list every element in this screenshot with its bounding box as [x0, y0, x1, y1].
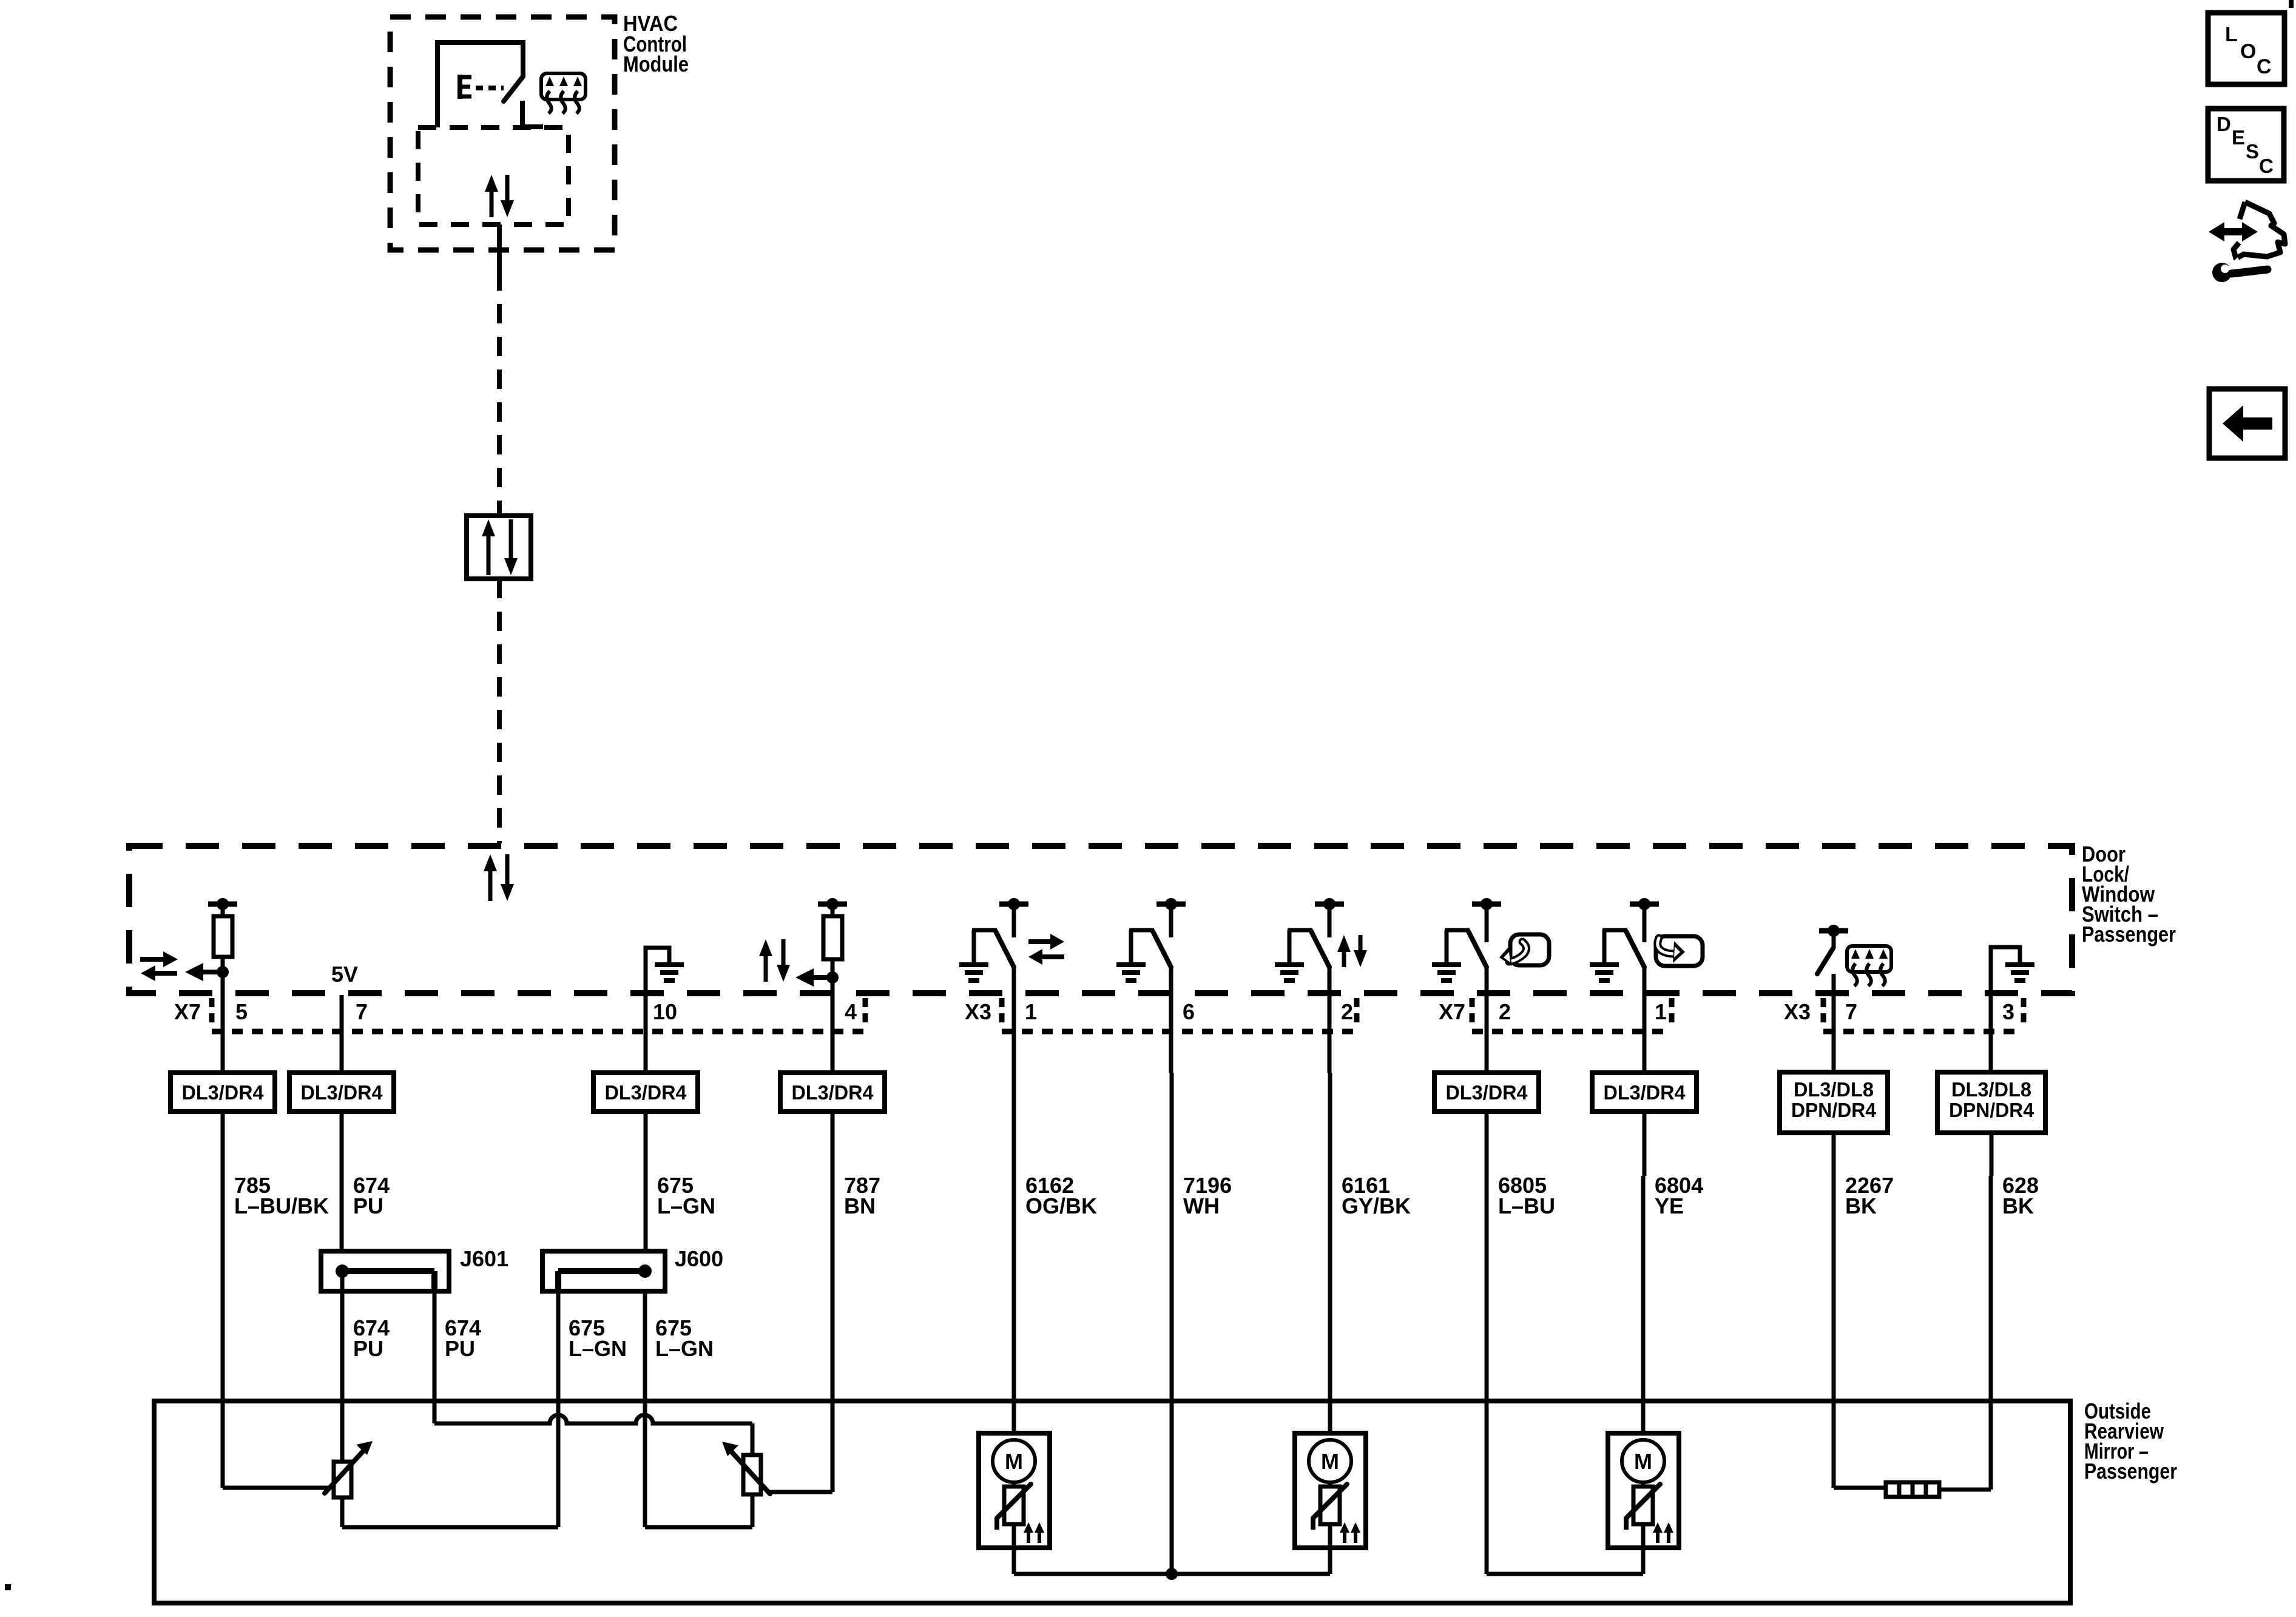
svg-text:D: D	[2217, 113, 2231, 135]
svg-text:E: E	[2232, 126, 2245, 149]
svg-text:J601: J601	[460, 1246, 508, 1271]
svg-text:DL3/DL8: DL3/DL8	[1951, 1078, 2031, 1101]
svg-text:L–BU/BK: L–BU/BK	[234, 1193, 329, 1218]
svg-text:DL3/DR4: DL3/DR4	[792, 1081, 874, 1104]
svg-text:C: C	[2257, 55, 2272, 78]
svg-text:1: 1	[1655, 999, 1667, 1024]
svg-text:OG/BK: OG/BK	[1025, 1193, 1097, 1218]
svg-text:6: 6	[1183, 999, 1195, 1024]
svg-text:3: 3	[2002, 999, 2014, 1024]
svg-text:L–GN: L–GN	[655, 1336, 714, 1361]
svg-text:M: M	[1634, 1449, 1652, 1474]
svg-text:Module: Module	[623, 52, 689, 76]
svg-text:2: 2	[1499, 999, 1511, 1024]
svg-text:DL3/DR4: DL3/DR4	[301, 1081, 383, 1104]
svg-text:S: S	[2246, 140, 2259, 163]
svg-text:1: 1	[1025, 999, 1037, 1024]
svg-text:X7: X7	[174, 999, 201, 1024]
svg-text:J600: J600	[675, 1246, 723, 1271]
svg-text:X3: X3	[1784, 999, 1811, 1024]
svg-text:PU: PU	[353, 1193, 383, 1218]
svg-text:O: O	[2240, 40, 2256, 63]
svg-text:BN: BN	[844, 1193, 876, 1218]
svg-text:L–GN: L–GN	[657, 1193, 715, 1218]
svg-text:DL3/DR4: DL3/DR4	[182, 1081, 265, 1104]
svg-text:5V: 5V	[331, 962, 358, 987]
svg-text:DL3/DR4: DL3/DR4	[605, 1081, 687, 1104]
svg-text:DL3/DR4: DL3/DR4	[1604, 1081, 1686, 1104]
svg-text:BK: BK	[1845, 1193, 1877, 1218]
svg-text:X3: X3	[965, 999, 991, 1024]
svg-text:DPN/DR4: DPN/DR4	[1949, 1099, 2034, 1121]
svg-text:7: 7	[1845, 999, 1857, 1024]
svg-text:Passenger: Passenger	[2082, 922, 2176, 947]
svg-text:YE: YE	[1655, 1193, 1684, 1218]
svg-text:2: 2	[1341, 999, 1353, 1024]
svg-text:4: 4	[845, 999, 857, 1024]
svg-text:C: C	[2259, 155, 2274, 177]
svg-text:10: 10	[653, 999, 677, 1024]
svg-text:L–GN: L–GN	[569, 1336, 627, 1361]
svg-text:PU: PU	[445, 1336, 475, 1361]
svg-text:Passenger: Passenger	[2084, 1459, 2177, 1484]
svg-text:WH: WH	[1183, 1193, 1220, 1218]
svg-text:7: 7	[356, 999, 368, 1024]
svg-text:DL3/DR4: DL3/DR4	[1446, 1081, 1528, 1104]
svg-text:X7: X7	[1439, 999, 1465, 1024]
svg-text:GY/BK: GY/BK	[1342, 1193, 1411, 1218]
svg-text:DL3/DL8: DL3/DL8	[1794, 1078, 1874, 1101]
svg-text:M: M	[1005, 1449, 1023, 1474]
svg-text:L: L	[2225, 23, 2238, 46]
svg-text:PU: PU	[353, 1336, 383, 1361]
svg-text:L–BU: L–BU	[1498, 1193, 1555, 1218]
svg-text:BK: BK	[2002, 1193, 2034, 1218]
svg-text:DPN/DR4: DPN/DR4	[1791, 1099, 1877, 1121]
svg-text:5: 5	[235, 999, 248, 1024]
svg-text:M: M	[1321, 1449, 1339, 1474]
